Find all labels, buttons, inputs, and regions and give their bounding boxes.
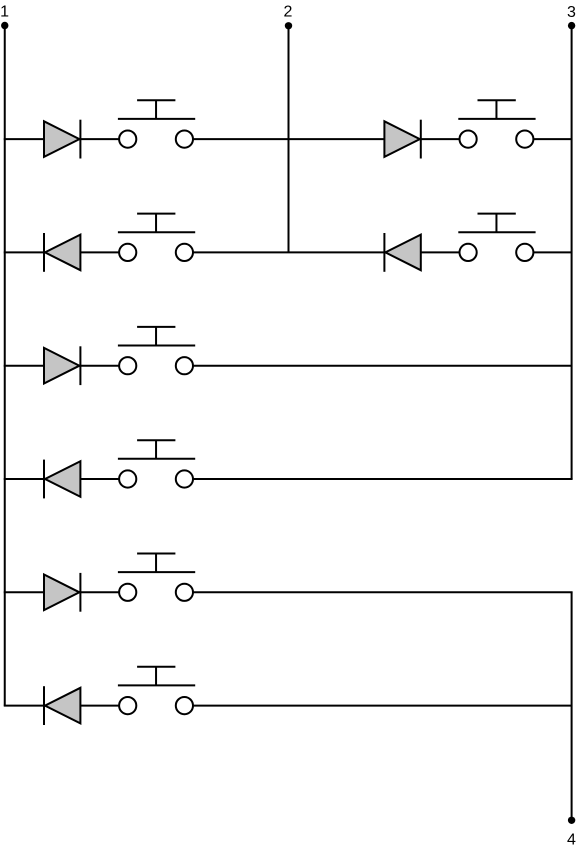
node 3 terminal dot [568,22,575,29]
wire: rung 4 right segment [184,478,572,480]
wire: right vertical from rung 5 down to node 4 [571,592,573,820]
diode D3 (rung 2 left, pointing left) [44,233,80,272]
node 4 terminal dot [568,817,575,824]
wire: rung 2 right segment [525,251,572,253]
pushbutton S4 (rung 2 right) [458,214,535,261]
node 2 terminal dot [285,22,292,29]
diode D4 (rung 2 right, pointing left) [384,233,420,272]
wire: rung 1 right segment [525,138,572,140]
wire: right vertical rail from node 3 down to rung 4 [571,26,573,479]
wire: rung 2 middle segment [184,251,468,253]
wire: rung 4 left segment [4,478,128,480]
pushbutton S5 (rung 3) [118,327,195,374]
diode D1 (rung 1 left, pointing right) [44,120,80,159]
node 1 terminal dot [1,22,8,29]
pushbutton S2 (rung 1 right) [458,100,535,147]
svg-text:3: 3 [567,4,576,21]
wire: rung 3 right segment [184,365,571,367]
wire: vertical drop from node 2 down to rung 2 [288,26,290,253]
diode D6 (rung 4, pointing left) [44,460,80,499]
diode D5 (rung 3, pointing right) [44,346,80,385]
wire: rung 5 left segment [4,591,128,593]
pushbutton S7 (rung 5) [118,554,195,601]
pushbutton S8 (rung 6) [118,667,195,714]
svg-text:2: 2 [284,4,293,21]
diode D7 (rung 5, pointing right) [44,573,80,612]
wire: rung 1 middle segment [184,138,468,140]
wire: rung 6 right segment [184,705,571,707]
wire: rung 1 left segment [4,138,128,140]
wire: rung 5 right segment [184,591,572,593]
diode D2 (rung 1 right, pointing right) [384,120,420,159]
wire: rung 2 left segment [4,251,128,253]
diode D8 (rung 6, pointing left) [44,686,80,725]
wire: rung 6 left segment [4,705,128,707]
pushbutton S6 (rung 4) [118,440,195,487]
pushbutton S3 (rung 2 left) [118,214,195,261]
wire: rung 3 left segment [4,365,128,367]
wire: left vertical rail from node 1 down to rung 6 [4,26,6,706]
svg-text:4: 4 [567,832,576,848]
pushbutton S1 (rung 1 left) [118,100,195,147]
svg-text:1: 1 [0,4,9,21]
